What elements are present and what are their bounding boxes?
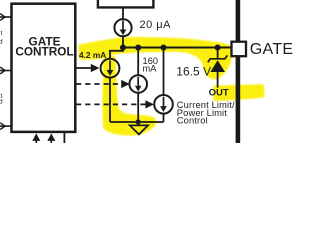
zener branch wire [217, 48, 219, 59]
box bottom pin stubs [35, 141, 37, 144]
arrowhead control I2 [91, 64, 100, 72]
zener cathode bar [208, 55, 228, 62]
zener diode triangle [210, 60, 225, 72]
junction dot D [215, 44, 221, 50]
top box (partial) [98, 0, 153, 7]
arrow inside I1 [122, 21, 124, 32]
wire zener to OUT [217, 72, 219, 88]
highlight OUT swipe [213, 84, 265, 101]
junction dot A [120, 44, 126, 50]
svg-text:d: d [0, 99, 3, 106]
input arrow 3 [0, 123, 12, 130]
input arrow 1 [0, 14, 12, 21]
svg-text:GATE: GATE [250, 41, 294, 58]
wire I3 bottom down [137, 93, 139, 122]
control arrow to I2 (solid) [76, 67, 93, 69]
svg-text:Control: Control [177, 116, 208, 126]
bottom rail [110, 121, 164, 123]
right block edge (thick vertical) [236, 0, 241, 143]
highlight rail swath [79, 37, 233, 79]
arrow inside I4 [163, 97, 165, 108]
junction dot C [160, 44, 166, 50]
arrow inside I3 [137, 77, 139, 87]
current source I3 160mA [129, 75, 147, 93]
svg-text:mA: mA [143, 63, 158, 73]
current source I1 20uA [114, 19, 131, 36]
control arrow to I3 (dashed) [76, 83, 124, 85]
svg-text:4.2 mA: 4.2 mA [79, 50, 106, 60]
wire rail to I4 [163, 48, 165, 96]
box bottom pin line [63, 133, 65, 143]
wire I2 bottom down [109, 78, 111, 122]
input arrow 2 [0, 67, 12, 74]
wire rail to I3 [137, 48, 139, 76]
svg-text:d: d [0, 39, 3, 46]
svg-text:OUT: OUT [209, 88, 229, 99]
junction dot B [135, 44, 141, 50]
current source I4 current limit [154, 95, 173, 114]
arrowhead control I4 [145, 100, 154, 108]
svg-text:it: it [0, 30, 2, 37]
arrow inside I2 [109, 61, 111, 72]
top rail [123, 47, 232, 49]
highlight vertical band + ground blob [102, 56, 156, 136]
jog wire rail to I2 [110, 48, 123, 60]
junction dot ground [136, 119, 141, 124]
ground triangle [130, 125, 148, 134]
svg-text:CONTROL: CONTROL [15, 45, 73, 59]
wire I1 to rail dot A [122, 36, 124, 47]
svg-text:20 μA: 20 μA [140, 19, 172, 31]
wire top box to 20uA source [122, 7, 124, 19]
box bottom arrow 2 [47, 133, 55, 141]
arrowhead control I3 [121, 80, 130, 88]
ground stub [137, 122, 139, 125]
GATE CONTROL box [12, 4, 76, 132]
control arrow to I4 (dashed) [76, 103, 148, 105]
svg-text:16.5 V: 16.5 V [176, 65, 211, 79]
box bottom arrow 1 [32, 133, 40, 141]
wire I4 bottom down [163, 114, 165, 122]
current source I2 4.2mA [101, 59, 120, 78]
GATE terminal square [232, 42, 247, 57]
